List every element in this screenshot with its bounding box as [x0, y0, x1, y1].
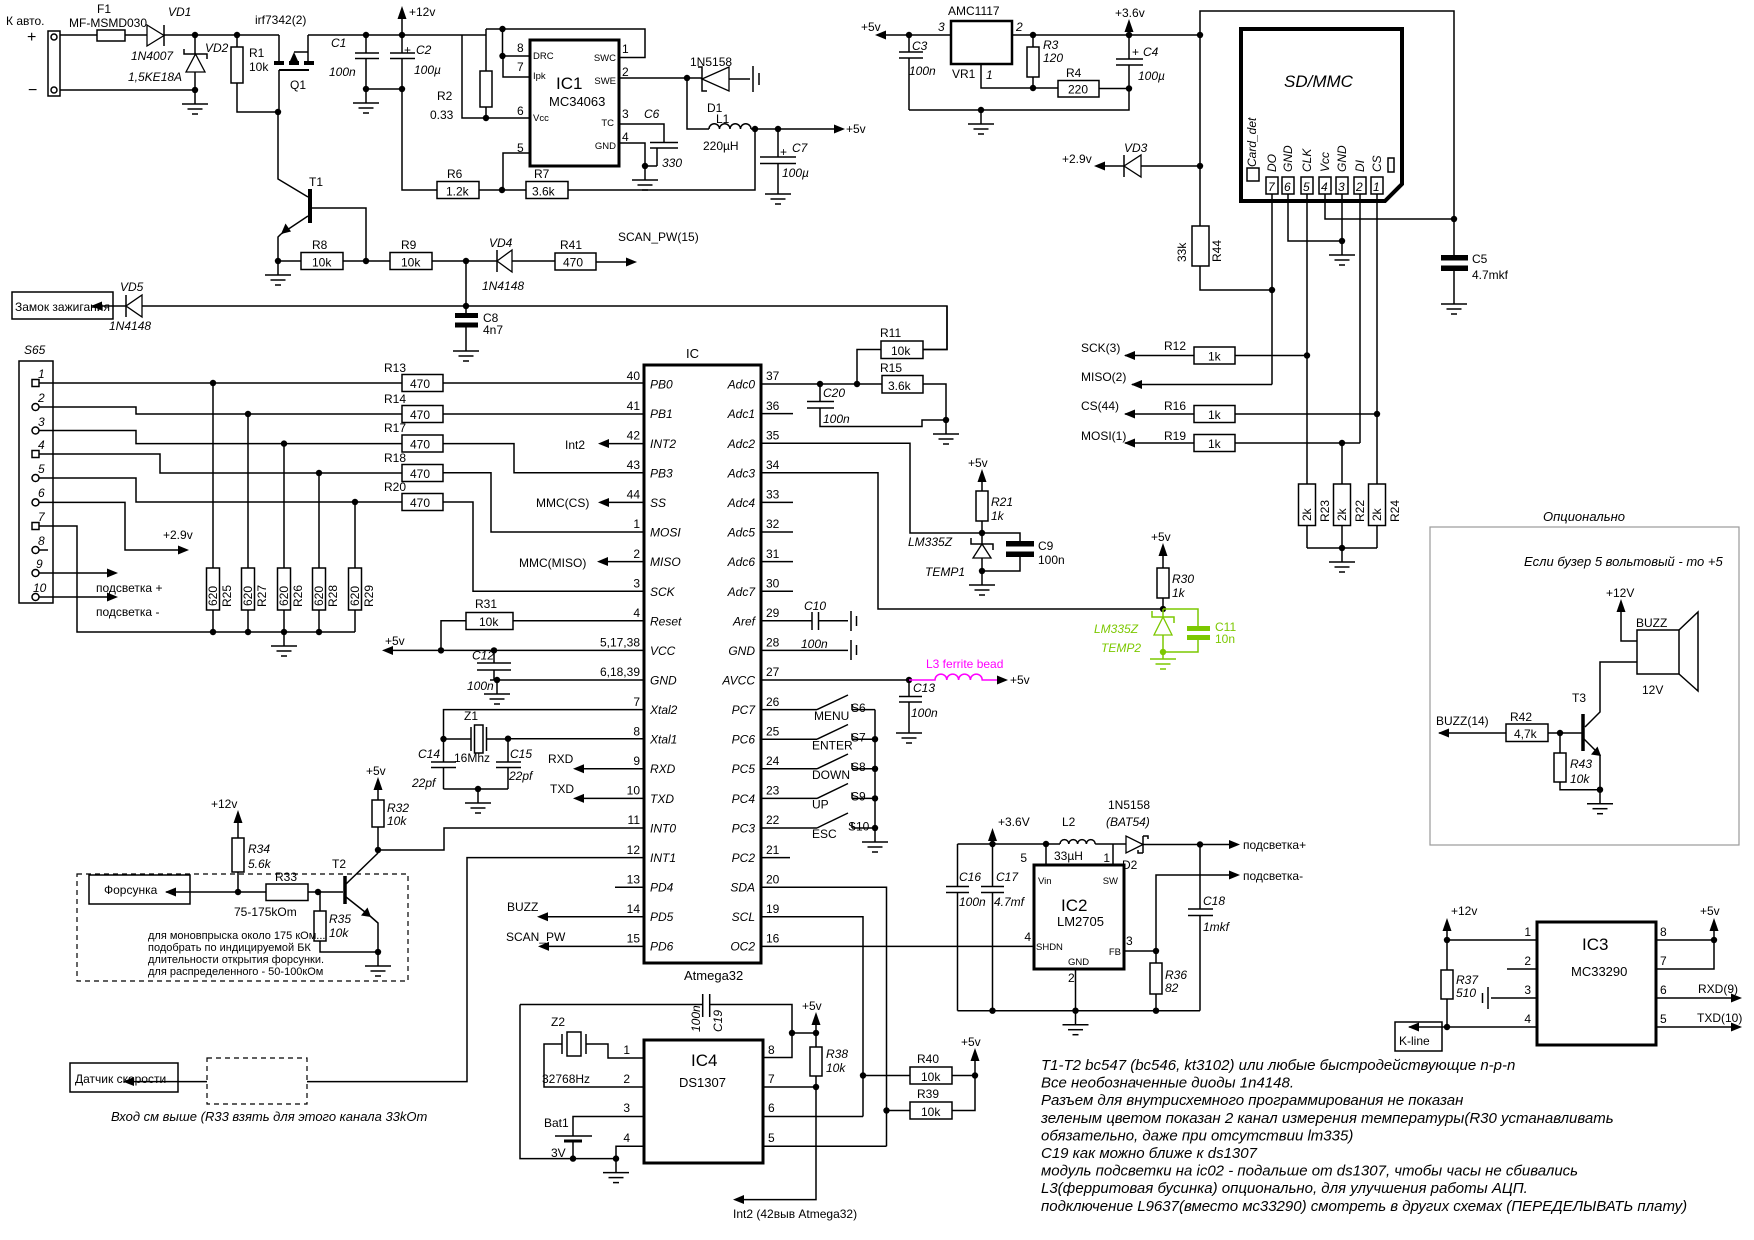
svg-text:R13: R13	[384, 361, 406, 375]
resistor R39 10k	[883, 1076, 975, 1120]
svg-text:VD4: VD4	[489, 236, 513, 250]
svg-text:C14: C14	[418, 747, 440, 761]
resistor R34 5.6k	[232, 838, 272, 892]
svg-text:SWC: SWC	[594, 53, 616, 64]
svg-text:CLK: CLK	[1300, 148, 1314, 172]
svg-text:29: 29	[766, 606, 780, 620]
svg-text:PD5: PD5	[650, 910, 674, 924]
svg-text:ENTER: ENTER	[812, 739, 853, 753]
svg-text:+5v: +5v	[968, 456, 988, 470]
switch S8 DOWN on PC5	[761, 754, 875, 782]
inductor L2 33µH	[1054, 815, 1095, 863]
svg-text:4: 4	[633, 606, 640, 620]
svg-text:15: 15	[627, 932, 641, 946]
svg-text:1: 1	[623, 1043, 630, 1057]
svg-text:Вход см выше (R33 взять для эт: Вход см выше (R33 взять для этого канала…	[111, 1109, 428, 1124]
svg-text:SWE: SWE	[594, 76, 616, 87]
power +5v arrow for R30	[1151, 530, 1171, 568]
svg-text:GND: GND	[595, 141, 616, 152]
svg-text:2: 2	[633, 547, 640, 561]
power +5v arrow for R38	[792, 999, 822, 1047]
svg-text:1: 1	[1373, 180, 1380, 194]
wire: L2 to SW stem	[1095, 844, 1126, 865]
switch S9 UP on PC4	[761, 784, 875, 812]
ground under resistor bus	[271, 632, 297, 656]
svg-text:19: 19	[766, 902, 780, 916]
wire: R18 to MOSI pin1	[443, 473, 644, 532]
svg-text:1N5158: 1N5158	[690, 55, 732, 69]
battery Bat1 3V	[544, 1116, 644, 1160]
ground under C13	[896, 719, 922, 743]
svg-text:MMC(CS): MMC(CS)	[536, 496, 589, 510]
IC left pin labels	[649, 378, 682, 954]
svg-text:+2.9v: +2.9v	[163, 528, 193, 542]
inductor L3 ferrite bead (magenta)	[909, 657, 1030, 687]
svg-text:220µH: 220µH	[703, 139, 739, 153]
svg-text:PC6: PC6	[732, 733, 756, 747]
svg-text:R11: R11	[880, 326, 901, 340]
svg-text:+5v: +5v	[366, 764, 386, 778]
ground under C1	[353, 89, 379, 113]
wire: Adc7 stub pin30	[761, 590, 793, 592]
svg-text:3.6k: 3.6k	[888, 379, 912, 393]
wire: rail down to R2 bottom and Vcc pin6	[462, 35, 530, 118]
svg-text:Разъем для внутрисхемного прог: Разъем для внутрисхемного программирован…	[1041, 1092, 1463, 1109]
wire: S65 pin6 to +2.9v	[39, 502, 179, 550]
node: car battery connector "К авто."	[6, 14, 60, 99]
resistor R14 470	[384, 392, 443, 423]
wire: L1 to +5v out	[751, 128, 836, 130]
svg-text:7: 7	[633, 695, 640, 709]
svg-text:1: 1	[1103, 851, 1110, 865]
resistor R35 10k	[314, 892, 378, 952]
svg-text:40: 40	[627, 369, 641, 383]
ground under VR1	[968, 110, 994, 134]
resistor R38 10k	[743, 1047, 848, 1200]
svg-text:10k: 10k	[826, 1061, 846, 1075]
svg-text:22pf: 22pf	[411, 776, 437, 790]
svg-text:TEMP2: TEMP2	[1101, 641, 1141, 655]
svg-text:Датчик скорости: Датчик скорости	[75, 1072, 166, 1086]
svg-text:C15: C15	[510, 747, 532, 761]
svg-text:TXD(10): TXD(10)	[1697, 1011, 1742, 1025]
svg-text:T1: T1	[309, 175, 323, 189]
svg-text:S6: S6	[851, 701, 866, 715]
wire: pin5 TXD(10)	[1656, 1026, 1732, 1028]
transistor Q1 irf7342(2) p-mosfet	[255, 13, 314, 112]
svg-text:Xtal1: Xtal1	[649, 733, 677, 747]
svg-text:C17: C17	[996, 870, 1019, 884]
resistor R32 10k	[366, 764, 409, 850]
svg-text:8: 8	[633, 725, 640, 739]
svg-text:Adc0: Adc0	[727, 378, 756, 392]
svg-text:2: 2	[622, 65, 629, 79]
wire: pin4 GND jog	[616, 1146, 644, 1158]
svg-text:UP: UP	[812, 798, 829, 812]
svg-text:28: 28	[766, 636, 780, 650]
wire: S65 pin5 row to R20	[39, 478, 402, 502]
svg-text:1,5KE18A: 1,5KE18A	[128, 70, 182, 84]
wire: pin7 Ipk stub	[503, 56, 530, 77]
power +12V arrow for buzzer	[1606, 586, 1637, 641]
svg-text:Z1: Z1	[464, 709, 478, 723]
ground under TEMP2 (green)	[1150, 652, 1176, 669]
svg-text:6: 6	[1284, 180, 1291, 194]
ground under C8	[453, 337, 479, 361]
svg-text:1: 1	[38, 367, 45, 381]
svg-text:IC1: IC1	[556, 74, 582, 93]
wire: PD4 stub pin13	[615, 886, 644, 888]
wire: DI pin2	[1359, 194, 1361, 443]
svg-text:PB1: PB1	[650, 407, 673, 421]
node: VD2 bottom junction	[192, 87, 198, 93]
svg-text:75-175kOm: 75-175kOm	[234, 905, 297, 919]
svg-text:31: 31	[766, 547, 780, 561]
ground under IC2	[1063, 1011, 1089, 1035]
svg-text:Adc6: Adc6	[727, 555, 756, 569]
node: T1 emitter junction	[275, 258, 281, 264]
wire: IC2 ground bus	[958, 1010, 1201, 1012]
svg-text:6: 6	[38, 486, 45, 500]
svg-text:26: 26	[766, 695, 780, 709]
svg-text:6,18,39: 6,18,39	[600, 665, 640, 679]
wire: pin2 stub	[1507, 968, 1537, 970]
svg-text:100n: 100n	[801, 637, 828, 651]
svg-text:3: 3	[1126, 934, 1133, 948]
svg-text:T2: T2	[332, 857, 346, 871]
svg-text:+5v: +5v	[1151, 530, 1171, 544]
wire: CLK pin5	[1306, 194, 1308, 484]
svg-text:+3.6v: +3.6v	[1115, 6, 1145, 20]
wire: gate node down to T1 collector	[278, 112, 308, 197]
ground under T1 emitter	[265, 261, 291, 285]
svg-text:33: 33	[766, 488, 780, 502]
SD pin boxes 7..1	[1266, 177, 1383, 194]
svg-text:+5v: +5v	[802, 999, 822, 1013]
wire: S65 pin9 подсветка+	[39, 572, 108, 574]
svg-text:R30: R30	[1172, 572, 1194, 586]
svg-text:8: 8	[1660, 925, 1667, 939]
op-amp U5: IC3 MC33290 box	[1524, 922, 1667, 1045]
svg-text:irf7342(2): irf7342(2)	[255, 13, 306, 27]
diode VD2 1,5KE18A (TVS)	[128, 35, 229, 90]
ground sideways on pin3	[1483, 987, 1489, 1009]
svg-text:R42: R42	[1510, 710, 1532, 724]
svg-text:C7: C7	[792, 141, 809, 155]
node: +5v output arrow	[834, 125, 845, 134]
svg-text:100n: 100n	[467, 679, 494, 693]
capacitor C1 100n	[329, 32, 379, 89]
svg-text:TXD: TXD	[550, 782, 574, 796]
diode LM335Z TEMP2 (green)	[1094, 609, 1174, 655]
svg-text:2: 2	[1015, 20, 1023, 34]
wire: 3.6V to card Vcc loop	[1200, 11, 1454, 219]
svg-text:R17: R17	[384, 421, 406, 435]
resistor R13 470	[384, 361, 443, 392]
wire: S65 pin3 row to R17	[39, 431, 402, 444]
svg-text:1.2k: 1.2k	[446, 185, 470, 199]
wire: VR1 adj pin1	[981, 64, 1058, 88]
ground under C5	[1441, 290, 1467, 314]
svg-text:INT2: INT2	[650, 437, 676, 451]
svg-text:330: 330	[662, 156, 682, 170]
svg-text:подобрать по индицируемой БК: подобрать по индицируемой БК	[148, 942, 311, 954]
svg-text:1k: 1k	[1208, 437, 1222, 451]
svg-text:для моновпрыска около 175 кОм.: для моновпрыска около 175 кОм...	[148, 930, 325, 942]
svg-text:+3.6V: +3.6V	[998, 815, 1030, 829]
node: T2 collector junction	[375, 847, 381, 853]
svg-text:+12v: +12v	[1451, 904, 1477, 918]
diode VD3 +2.9v	[1062, 141, 1203, 177]
wire: MMC(MISO) arrow pin2	[607, 561, 644, 563]
svg-text:10: 10	[627, 784, 641, 798]
svg-text:для распределенного - 50-100кО: для распределенного - 50-100кОм	[148, 966, 323, 978]
switch S6 MENU on PC7	[761, 695, 875, 723]
diode VD1 1N4007	[131, 5, 191, 63]
svg-text:Adc4: Adc4	[727, 496, 756, 510]
svg-text:C6: C6	[644, 107, 660, 121]
svg-text:C3: C3	[912, 39, 928, 53]
node: Датчик скорости box	[70, 1063, 178, 1092]
resistor R7 3.6k	[526, 167, 568, 199]
wire: S65 pin10 подсветка-	[39, 596, 108, 598]
wire: AVCC pin27	[761, 679, 909, 681]
svg-text:PC7: PC7	[732, 703, 757, 717]
node A: junction VD2 top	[192, 32, 198, 38]
wire: INT2 arrow pin42	[608, 443, 644, 445]
svg-text:+: +	[404, 43, 411, 57]
diode D2 1N5158 (BAT54)	[1106, 798, 1150, 872]
svg-text:R40: R40	[917, 1052, 939, 1066]
svg-text:MC33290: MC33290	[1571, 964, 1627, 979]
svg-text:модуль подсветки на ic02 - под: модуль подсветки на ic02 - подальше от d…	[1041, 1163, 1578, 1180]
wire: pin7 row	[1656, 940, 1714, 969]
ground under battery rail	[603, 1159, 629, 1183]
svg-text:1k: 1k	[1172, 586, 1186, 600]
capacitor C16 100n	[946, 844, 986, 1011]
svg-text:R34: R34	[248, 842, 270, 856]
capacitor C7 100µ	[760, 129, 809, 180]
svg-text:GND: GND	[728, 644, 755, 658]
svg-text:470: 470	[563, 256, 583, 270]
svg-text:620: 620	[241, 586, 255, 606]
svg-text:SCL: SCL	[732, 910, 755, 924]
svg-text:R12: R12	[1164, 339, 1186, 353]
ground under R15	[933, 420, 959, 444]
capacitor C4 100µ	[1116, 35, 1165, 89]
svg-text:R35: R35	[329, 912, 351, 926]
svg-text:подсветка -: подсветка -	[96, 605, 159, 619]
svg-text:L3(ферритовая бусинка) опцион: L3(ферритовая бусинка) опционально, для …	[1041, 1180, 1528, 1197]
svg-text:4.7mf: 4.7mf	[994, 895, 1026, 909]
svg-text:3: 3	[1338, 180, 1345, 194]
svg-text:3: 3	[1524, 983, 1531, 997]
svg-text:32768Hz: 32768Hz	[542, 1072, 590, 1086]
svg-text:VD2: VD2	[205, 41, 229, 55]
svg-text:+5v: +5v	[1700, 904, 1720, 918]
ground under 2k bus	[1329, 548, 1355, 572]
ground sideways on pin28	[851, 640, 857, 660]
wire: SCL pin19 to DS1307 pin6	[761, 917, 863, 1117]
diode VD4 1N4148	[482, 236, 524, 293]
svg-text:4: 4	[1524, 1012, 1531, 1026]
capacitor C6 330	[619, 107, 682, 170]
wire: SCK(3) arrow	[1125, 355, 1194, 357]
svg-text:470: 470	[410, 496, 430, 510]
svg-text:VCC: VCC	[650, 644, 676, 658]
svg-text:+2.9v: +2.9v	[1062, 152, 1092, 166]
svg-text:R15: R15	[880, 361, 902, 375]
svg-text:Int2: Int2	[565, 438, 585, 452]
svg-text:10k: 10k	[312, 256, 332, 270]
svg-text:SDA: SDA	[730, 881, 755, 895]
svg-text:5: 5	[38, 462, 45, 476]
svg-text:100n: 100n	[823, 412, 850, 426]
resistor R4 220	[1058, 66, 1129, 97]
resistor R20 470	[384, 480, 443, 511]
svg-text:23: 23	[766, 784, 780, 798]
svg-text:длительности открытия форсунки: длительности открытия форсунки.	[148, 954, 324, 966]
svg-text:Опционально: Опционально	[1543, 509, 1625, 524]
svg-text:1: 1	[1524, 925, 1531, 939]
svg-text:3.6k: 3.6k	[532, 185, 556, 199]
wire: IC2 GND stem	[1075, 969, 1077, 1011]
svg-text:12: 12	[627, 843, 641, 857]
svg-text:PC2: PC2	[732, 851, 756, 865]
svg-text:25: 25	[766, 725, 780, 739]
svg-text:PB3: PB3	[650, 467, 673, 481]
svg-text:−: −	[28, 82, 37, 99]
svg-text:5.6k: 5.6k	[248, 857, 272, 871]
svg-text:Xtal2: Xtal2	[649, 703, 678, 717]
wire: DS1307 pin6 SCL row	[763, 1116, 863, 1118]
svg-text:470: 470	[410, 377, 430, 391]
svg-text:PC5: PC5	[732, 762, 756, 776]
op-amp U1: IC1 MC34063 box	[517, 40, 629, 166]
node: Замок зажигания box	[12, 292, 113, 319]
node: Int2 arrow	[733, 1195, 744, 1204]
svg-text:+5v: +5v	[961, 1035, 981, 1049]
svg-text:IC2: IC2	[1061, 896, 1087, 915]
svg-text:TXD: TXD	[650, 792, 674, 806]
wire: SDA pin20 to DS1307 pin5	[761, 887, 887, 1146]
svg-text:R28: R28	[326, 585, 340, 607]
svg-text:100n: 100n	[909, 64, 936, 78]
op-amp VR1 AMC1117 box	[938, 4, 1023, 82]
svg-text:4: 4	[38, 438, 45, 452]
wire: GND pin6	[1288, 194, 1342, 241]
svg-text:620: 620	[348, 586, 362, 606]
resistor R37 510	[1441, 940, 1479, 1027]
resistor R41 470	[555, 238, 596, 270]
svg-text:S7: S7	[851, 731, 866, 745]
svg-text:LM2705: LM2705	[1057, 914, 1104, 929]
switch S7 ENTER on PC6	[761, 725, 875, 753]
svg-text:C19: C19	[711, 1010, 725, 1032]
node: C8 junction	[463, 303, 469, 309]
svg-text:32: 32	[766, 517, 780, 531]
wire: crystal caps ground bus	[444, 788, 509, 790]
svg-text:22pf: 22pf	[508, 769, 534, 783]
svg-text:8: 8	[517, 41, 524, 55]
wire: switch common bus	[874, 710, 876, 828]
wire: MISO(2) arrow	[1132, 384, 1272, 386]
svg-text:IC3: IC3	[1582, 935, 1608, 954]
wire: C4/R4 to ground rail	[909, 89, 1129, 111]
svg-text:+5v: +5v	[1010, 673, 1030, 687]
wire: S65 pin1 row to R13	[39, 382, 402, 384]
svg-text:5: 5	[1660, 1012, 1667, 1026]
svg-text:20: 20	[766, 873, 780, 887]
svg-text:CS(44): CS(44)	[1081, 399, 1119, 413]
svg-text:F1: F1	[97, 2, 111, 16]
svg-text:Ipk: Ipk	[533, 71, 546, 82]
wire: S65 pin7 to resistor ground bus	[39, 526, 355, 632]
ground sideways on Aref	[851, 611, 857, 631]
IC left pin numbers	[600, 369, 640, 946]
ground under crystal	[465, 789, 491, 813]
wire: R17 to PB3 pin43	[443, 444, 644, 473]
svg-text:6: 6	[517, 104, 524, 118]
svg-text:1N5158: 1N5158	[1108, 798, 1150, 812]
svg-text:10k: 10k	[401, 256, 421, 270]
resistor R42 4,7k	[1506, 710, 1582, 742]
resistor R30 1k	[1157, 568, 1194, 609]
wire: R44 column	[1200, 35, 1272, 290]
resistor R17 470	[384, 421, 443, 452]
svg-text:3: 3	[623, 1101, 630, 1115]
resistor R18 470	[384, 451, 443, 482]
svg-text:9: 9	[36, 557, 43, 571]
svg-text:R9: R9	[401, 238, 417, 252]
resistor R26 620	[277, 440, 305, 635]
wire: speed sensor line with arrow	[124, 1081, 207, 1083]
svg-text:GND: GND	[1281, 145, 1295, 172]
wire: R33 to T2 base	[308, 891, 343, 893]
capacitor C12 100n	[467, 647, 511, 693]
wire: CS(44) arrow	[1125, 413, 1194, 415]
svg-text:DI: DI	[1353, 159, 1367, 172]
capacitor C20 100n	[807, 384, 946, 427]
IC right pin labels	[721, 378, 756, 954]
svg-text:R26: R26	[291, 585, 305, 607]
svg-text:SD/MMC: SD/MMC	[1284, 72, 1354, 91]
svg-text:C9: C9	[1038, 539, 1054, 553]
svg-text:RXD: RXD	[650, 762, 676, 776]
wire: R14 to PB1 pin41	[443, 413, 644, 415]
svg-text:27: 27	[766, 665, 780, 679]
svg-text:6: 6	[768, 1101, 775, 1115]
wire: D1 to side ground	[729, 78, 750, 80]
svg-text:620: 620	[206, 586, 220, 606]
op-amp U2: IC Atmega32 box	[644, 346, 761, 983]
wire: PC2 stub pin21	[761, 857, 790, 859]
wire: S65 pin4 row to R18	[39, 454, 402, 473]
capacitor C8 4n7	[455, 306, 503, 337]
svg-text:Если бузер 5 вольтовый - то +5: Если бузер 5 вольтовый - то +5	[1524, 554, 1723, 569]
wire: S65 pin8 stub	[39, 549, 48, 551]
svg-text:R19: R19	[1164, 429, 1186, 443]
svg-text:MENU: MENU	[814, 709, 849, 723]
svg-text:DOWN: DOWN	[812, 768, 850, 782]
svg-text:MMC(MISO): MMC(MISO)	[519, 556, 586, 570]
svg-text:подсветка +: подсветка +	[96, 581, 162, 595]
svg-text:OC2: OC2	[730, 940, 755, 954]
svg-text:Int2 (42выв Atmega32): Int2 (42выв Atmega32)	[733, 1207, 857, 1221]
svg-text:Atmega32: Atmega32	[684, 968, 743, 983]
svg-text:3: 3	[938, 20, 945, 34]
svg-text:IC: IC	[686, 346, 699, 361]
